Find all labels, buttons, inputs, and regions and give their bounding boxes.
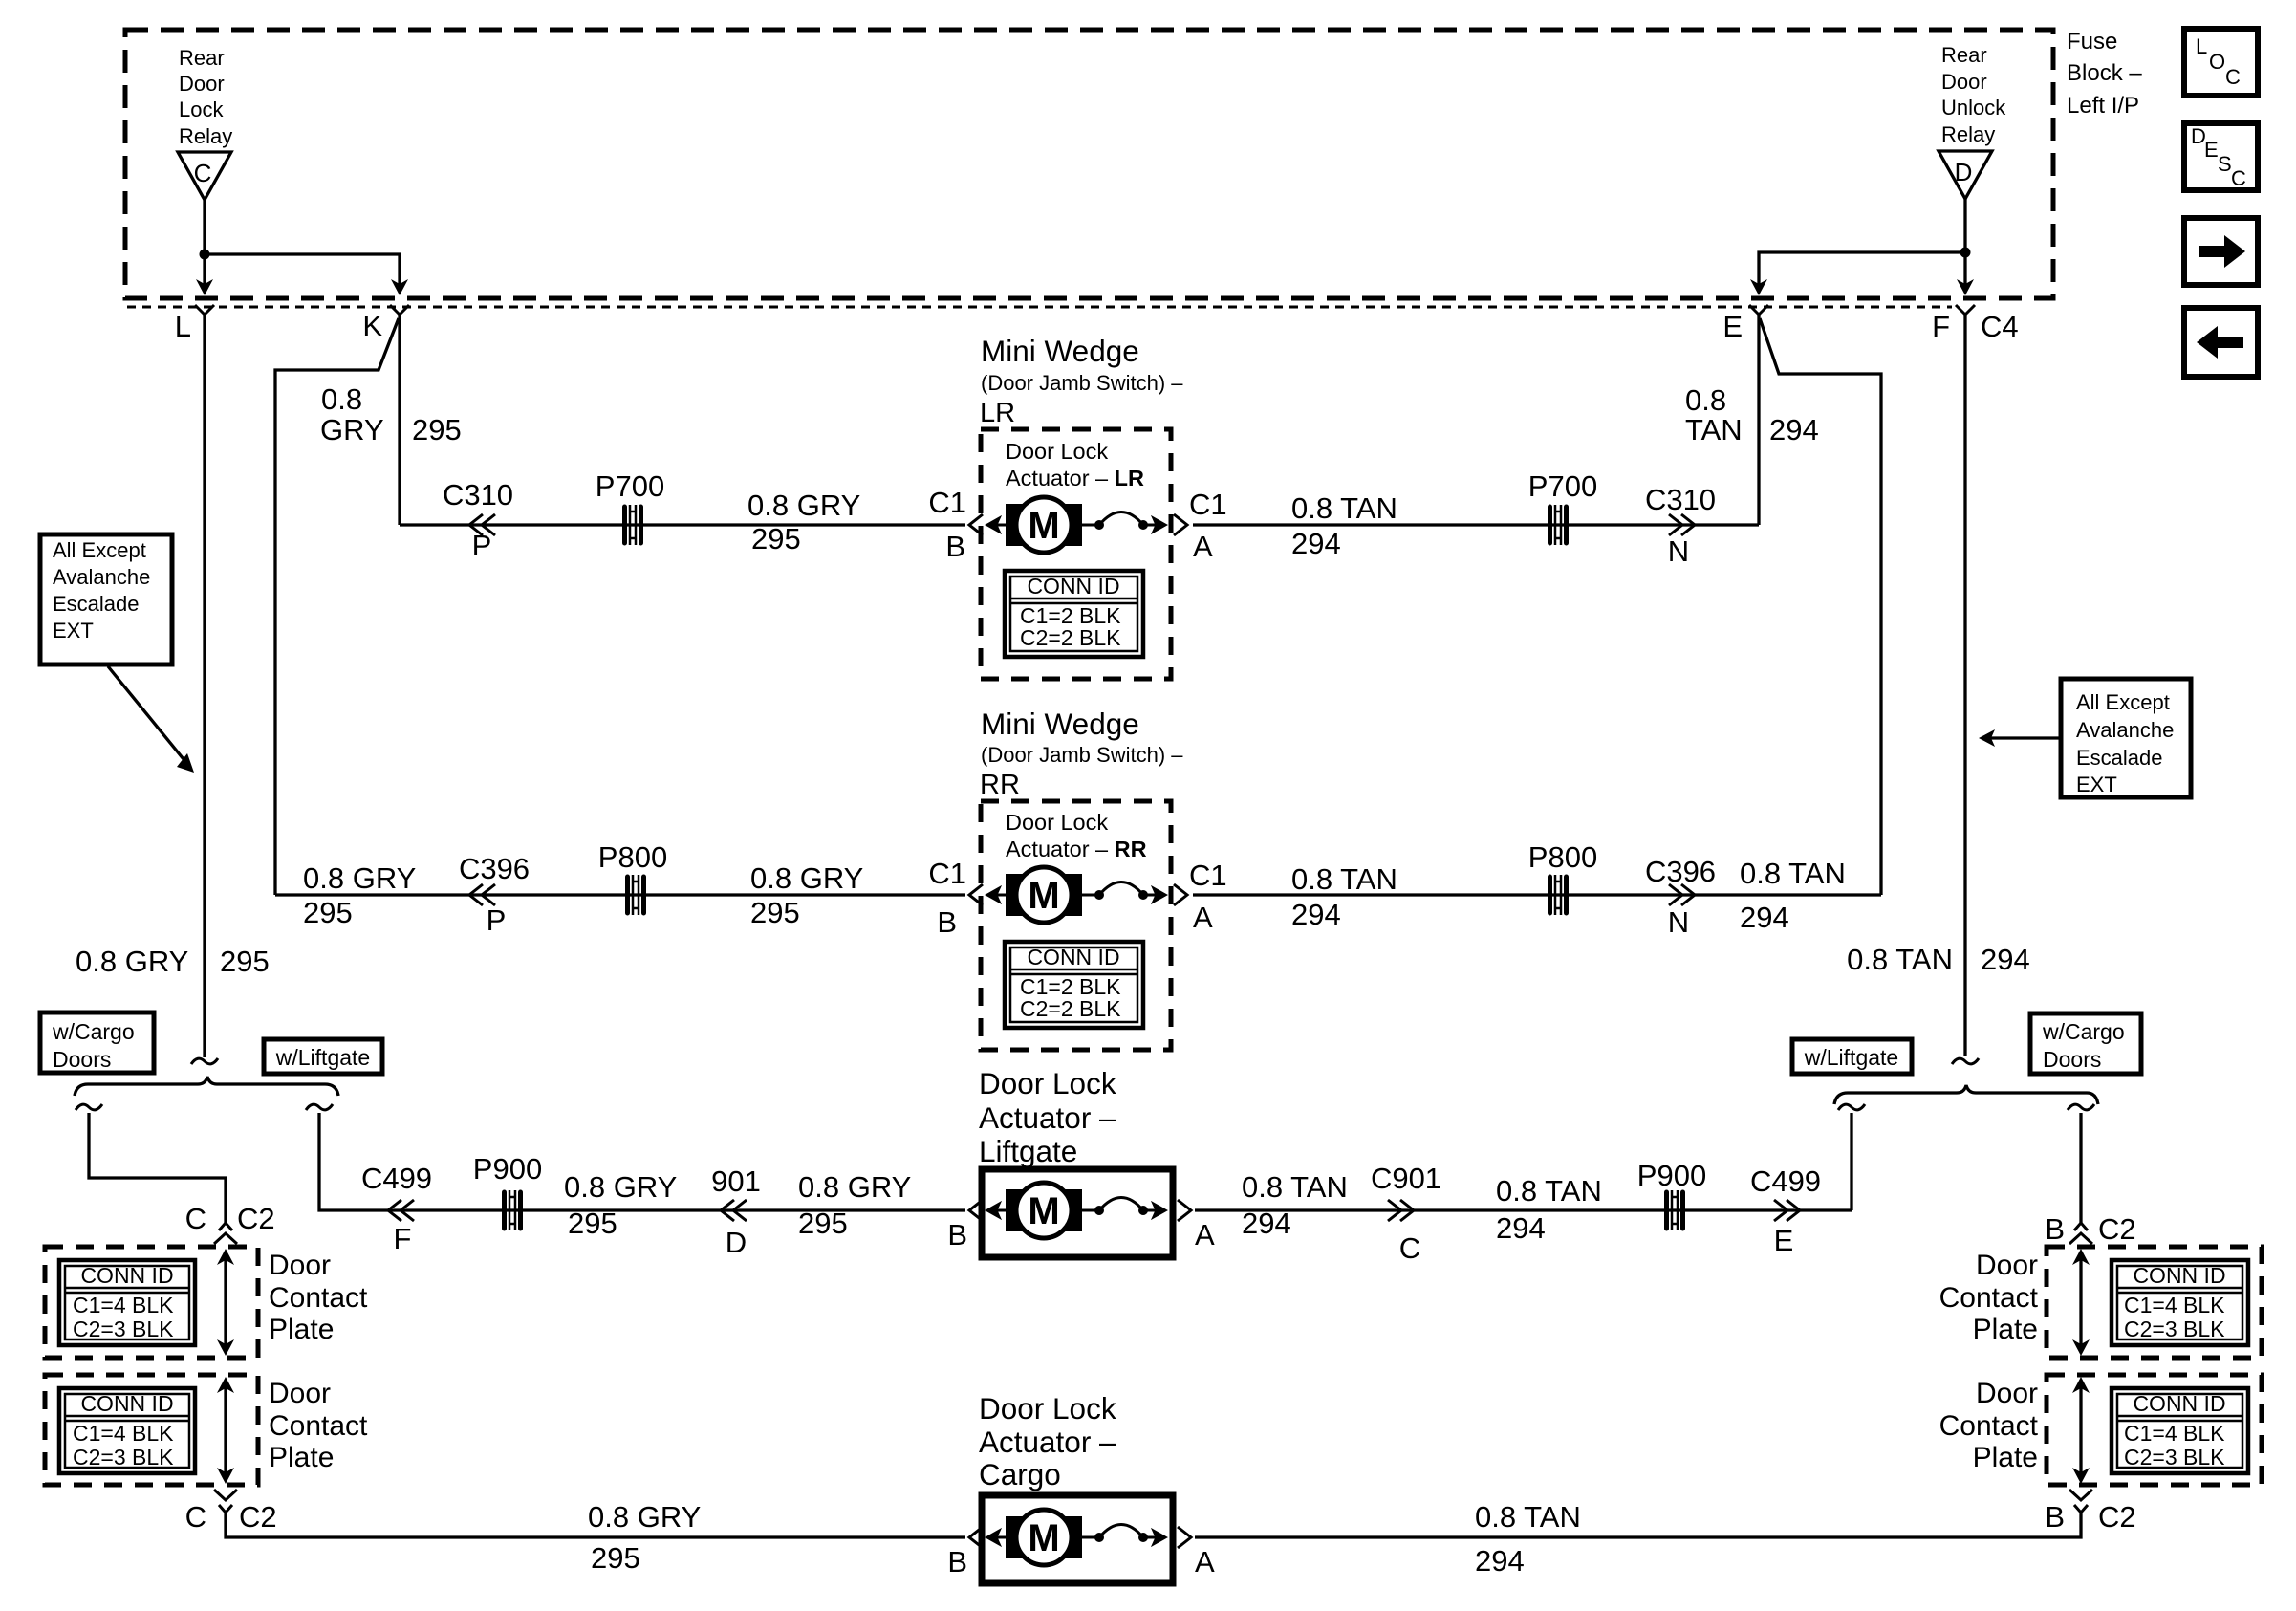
svg-text:C: C [2225, 65, 2241, 89]
svg-text:294: 294 [1242, 1207, 1291, 1240]
svg-text:C1=4 BLK: C1=4 BLK [2124, 1293, 2225, 1317]
svg-text:S: S [2218, 152, 2232, 176]
wire L vertical gray 295 [203, 315, 206, 1057]
svg-text:0.8 GRY: 0.8 GRY [76, 945, 188, 978]
svg-text:C2=3 BLK: C2=3 BLK [2124, 1317, 2225, 1341]
svg-text:Plate: Plate [269, 1442, 334, 1473]
connector B / C2 right bottom [2069, 1490, 2092, 1513]
splice P700 left [625, 505, 641, 545]
connector C396 pin P double chevron [469, 884, 483, 905]
svg-text:294: 294 [1475, 1544, 1525, 1578]
motor M of cargo actuator [986, 1510, 1167, 1565]
svg-text:Mini Wedge: Mini Wedge [981, 334, 1139, 368]
wire: relay C to junction [203, 198, 206, 285]
pin K connector [390, 305, 409, 315]
pin E connector [1749, 305, 1768, 315]
svg-text:C1=4 BLK: C1=4 BLK [2124, 1421, 2225, 1446]
connector 901 pin D double chevron [721, 1200, 734, 1221]
node end of F wire [1952, 1058, 1979, 1064]
svg-text:A: A [1193, 901, 1213, 934]
wire: liftgate actuator pin A to C499 E, tan [1195, 1208, 1852, 1211]
svg-text:E: E [1774, 1224, 1794, 1257]
wire K diagonal branch to RR row [275, 318, 399, 895]
svg-text:N: N [1668, 534, 1689, 568]
svg-text:B: B [937, 905, 957, 939]
svg-text:C2=3 BLK: C2=3 BLK [2124, 1445, 2225, 1469]
svg-text:P700: P700 [1528, 469, 1597, 503]
arrow into pin E [1750, 279, 1767, 295]
svg-text:C2: C2 [237, 1202, 275, 1235]
door lock actuator liftgate box [982, 1169, 1173, 1257]
terminal A of liftgate actuator [1178, 1200, 1191, 1221]
svg-text:EXT: EXT [2076, 773, 2117, 796]
svg-text:C: C [194, 159, 212, 187]
svg-text:P: P [472, 529, 492, 562]
svg-text:294: 294 [1740, 901, 1789, 934]
svg-text:All Except: All Except [2076, 690, 2170, 714]
svg-text:C: C [185, 1202, 206, 1235]
svg-text:294: 294 [1291, 898, 1341, 931]
node w/Liftgate branch left [306, 1104, 333, 1110]
svg-text:C1=4 BLK: C1=4 BLK [73, 1293, 174, 1317]
wire: liftgate branch right vertical [1850, 1113, 1852, 1210]
label Door Contact Plate left 2 [269, 1378, 368, 1473]
svg-text:Relay: Relay [1941, 122, 1995, 146]
note box All Except Avalanche Escalade EXT left [40, 534, 172, 664]
wire: C2 to cargo actuator pin B, gray 295 [226, 1511, 965, 1537]
svg-text:Contact: Contact [1939, 1282, 2039, 1314]
svg-text:F: F [1932, 310, 1950, 343]
relay C label: Rear Door Lock Relay [179, 46, 232, 148]
option box w/Liftgate right [1792, 1039, 1912, 1074]
svg-text:w/Cargo: w/Cargo [2042, 1019, 2125, 1044]
svg-text:Avalanche: Avalanche [53, 565, 150, 589]
wire: K to actuator LR pin B, gray 295 [400, 523, 965, 526]
svg-text:Rear: Rear [1941, 43, 1987, 67]
svg-text:0.8 GRY: 0.8 GRY [588, 1500, 701, 1534]
svg-text:CONN ID: CONN ID [80, 1391, 173, 1416]
wire: actuator LR pin A to E, tan 294 [1193, 523, 1759, 526]
door contact plate dashed box right 2 [2047, 1375, 2262, 1485]
svg-text:(Door Jamb Switch) –: (Door Jamb Switch) – [981, 743, 1183, 767]
connector C310 pin N double chevron [1669, 514, 1682, 535]
svg-text:0.8 TAN: 0.8 TAN [1242, 1170, 1348, 1204]
svg-text:0.8 TAN: 0.8 TAN [1475, 1500, 1581, 1534]
double arrow through door contact plate left 1 [217, 1249, 234, 1356]
svg-text:0.8 GRY: 0.8 GRY [750, 861, 863, 895]
button DESC [2184, 123, 2258, 190]
pin L connector [195, 305, 214, 315]
svg-text:Doors: Doors [53, 1047, 111, 1072]
svg-text:C1: C1 [1189, 859, 1227, 892]
svg-text:Door Lock: Door Lock [1006, 810, 1108, 835]
svg-text:0.8 TAN: 0.8 TAN [1740, 857, 1846, 890]
svg-text:295: 295 [568, 1207, 617, 1240]
wire: cargo branch down right [2079, 1113, 2082, 1223]
label Fuse Block - Left I/P [2067, 29, 2142, 119]
svg-text:L: L [175, 310, 191, 343]
wire: C2 right to cargo actuator pin A, tan 294 [1195, 1511, 2081, 1537]
arrow into pin K [391, 279, 408, 295]
arrow from left note box [108, 666, 187, 764]
svg-text:P800: P800 [598, 840, 667, 874]
pin F connector [1956, 305, 1975, 315]
svg-text:E: E [1722, 310, 1743, 343]
option box w/Liftgate left [264, 1039, 382, 1074]
button LOC [2184, 29, 2258, 96]
wire: cargo branch down to connector C2, left [89, 1113, 226, 1223]
svg-text:Actuator – RR: Actuator – RR [1006, 837, 1147, 861]
svg-text:Lock: Lock [179, 98, 224, 121]
wire E diagonal branch to RR row right [1760, 318, 1881, 895]
CONN ID table right 2 [2112, 1388, 2248, 1473]
label Door Lock Actuator - LR [1006, 439, 1144, 490]
connector C396 pin N double chevron [1669, 884, 1682, 905]
svg-text:O: O [2209, 50, 2225, 74]
svg-text:C310: C310 [443, 478, 513, 512]
relay D label: Rear Door Unlock Relay [1941, 43, 2006, 146]
connector C901 pin C double chevron [1388, 1200, 1401, 1221]
svg-text:w/Liftgate: w/Liftgate [1804, 1045, 1898, 1070]
fuse block Fuse Block - Left I/P dashed enclosure [125, 30, 2053, 298]
svg-text:K: K [362, 309, 382, 342]
svg-text:Plate: Plate [1973, 1442, 2038, 1473]
wire: relay D to junction [1963, 197, 1966, 285]
label Door Lock Actuator - RR [1006, 810, 1147, 861]
svg-text:C396: C396 [1645, 855, 1716, 888]
svg-text:w/Liftgate: w/Liftgate [275, 1045, 370, 1070]
svg-text:C1=4 BLK: C1=4 BLK [73, 1421, 174, 1446]
svg-text:C2: C2 [239, 1500, 277, 1534]
svg-text:Door: Door [1976, 1250, 2038, 1281]
double arrow through door contact plate right 2 [2072, 1377, 2090, 1484]
wire: junction to K branch [205, 254, 400, 285]
svg-text:Block –: Block – [2067, 60, 2142, 86]
splice P900 right [1667, 1190, 1683, 1230]
motor M of actuator LR [986, 497, 1167, 553]
svg-text:Door: Door [179, 72, 225, 96]
svg-text:Doors: Doors [2043, 1047, 2101, 1072]
svg-text:Relay: Relay [179, 124, 232, 148]
svg-text:Actuator –: Actuator – [979, 1100, 1116, 1135]
svg-text:C2: C2 [2098, 1212, 2136, 1246]
svg-text:P900: P900 [1637, 1159, 1706, 1192]
svg-text:Escalade: Escalade [2076, 746, 2163, 770]
svg-text:CONN ID: CONN ID [1027, 574, 1119, 599]
terminal B of cargo actuator [969, 1527, 983, 1548]
svg-text:CONN ID: CONN ID [1027, 945, 1119, 969]
connector C4 dashed line [127, 306, 1952, 309]
svg-text:RR: RR [980, 770, 1020, 800]
motor M of actuator RR [986, 867, 1167, 923]
svg-text:P700: P700 [596, 469, 664, 503]
svg-text:0.8 GRY: 0.8 GRY [564, 1170, 677, 1204]
svg-text:295: 295 [591, 1541, 640, 1575]
CONN ID table of actuator RR [1005, 942, 1143, 1028]
svg-text:Plate: Plate [269, 1314, 334, 1345]
svg-text:C2=2 BLK: C2=2 BLK [1020, 996, 1121, 1021]
svg-text:C2=3 BLK: C2=3 BLK [73, 1317, 174, 1341]
door lock actuator RR dashed box [981, 801, 1171, 1050]
svg-text:A: A [1193, 530, 1213, 563]
svg-text:C396: C396 [459, 852, 530, 885]
label Mini Wedge (Door Jamb Switch) - LR [980, 334, 1183, 428]
button back arrow [2184, 308, 2258, 377]
label Mini Wedge (Door Jamb Switch) - RR [980, 707, 1183, 800]
CONN ID table left 2 [59, 1388, 195, 1473]
svg-text:294: 294 [1496, 1211, 1546, 1245]
svg-text:Contact: Contact [269, 1410, 368, 1442]
svg-text:C2=2 BLK: C2=2 BLK [1020, 625, 1121, 650]
node w/Cargo branch right [2068, 1104, 2094, 1110]
arrow into pin F [1957, 279, 1974, 295]
svg-text:C310: C310 [1645, 483, 1716, 516]
svg-text:(Door Jamb Switch) –: (Door Jamb Switch) – [981, 371, 1183, 395]
splice P900 left [505, 1190, 521, 1230]
brace splitting F wire right [1834, 1085, 2098, 1104]
svg-text:Unlock: Unlock [1941, 96, 2006, 120]
svg-text:295: 295 [750, 896, 800, 929]
connector C310 pin P double chevron [469, 514, 483, 535]
double arrow through door contact plate left 2 [217, 1377, 234, 1484]
node w/Liftgate branch right [1838, 1104, 1865, 1110]
svg-text:294: 294 [1291, 527, 1341, 560]
wire: K branch to actuator RR pin B, gray 295 [275, 893, 965, 896]
svg-text:295: 295 [220, 945, 270, 978]
svg-text:B: B [947, 1545, 967, 1578]
brace splitting L wire left [75, 1077, 338, 1096]
CONN ID table right 1 [2112, 1260, 2248, 1345]
svg-text:Door: Door [1976, 1378, 2038, 1409]
label Door Contact Plate right 1 [1939, 1250, 2039, 1345]
label Door Contact Plate left 1 [269, 1250, 368, 1345]
svg-text:0.8: 0.8 [1685, 383, 1726, 417]
svg-text:0.8 TAN: 0.8 TAN [1291, 862, 1397, 896]
connector C / C2 left bottom [214, 1490, 237, 1513]
arrow into pin L [196, 279, 213, 295]
terminal A of cargo actuator [1178, 1527, 1191, 1548]
junction dot on relay D wire [1960, 248, 1971, 258]
svg-text:295: 295 [412, 413, 462, 446]
svg-text:Door: Door [269, 1378, 331, 1409]
terminal B of liftgate actuator [969, 1200, 983, 1221]
svg-text:C1: C1 [928, 486, 966, 519]
svg-text:C: C [2231, 166, 2246, 190]
note box All Except Avalanche Escalade EXT right [2061, 679, 2191, 797]
svg-text:Door Lock: Door Lock [979, 1391, 1116, 1426]
node end of L wire [191, 1058, 218, 1064]
svg-text:B: B [945, 530, 965, 563]
svg-text:0.8: 0.8 [321, 382, 362, 416]
relay C triangle symbol [178, 152, 231, 200]
svg-text:C499: C499 [361, 1162, 432, 1195]
motor M of liftgate actuator [986, 1183, 1167, 1238]
svg-text:B: B [2045, 1500, 2065, 1534]
svg-text:CONN ID: CONN ID [2133, 1391, 2225, 1416]
wire: junction to E branch [1759, 252, 1965, 285]
svg-text:0.8 GRY: 0.8 GRY [303, 861, 416, 895]
connector C499 pin F double chevron [388, 1200, 401, 1221]
svg-text:Liftgate: Liftgate [979, 1134, 1077, 1168]
svg-text:C901: C901 [1371, 1162, 1441, 1195]
svg-text:Actuator – LR: Actuator – LR [1006, 466, 1144, 490]
door contact plate dashed box right 1 [2047, 1247, 2262, 1358]
svg-text:Door: Door [1941, 70, 1987, 94]
svg-text:Escalade: Escalade [53, 592, 140, 616]
svg-text:GRY: GRY [320, 413, 384, 446]
label Door Lock Actuator - Cargo [979, 1391, 1116, 1491]
svg-text:0.8 GRY: 0.8 GRY [747, 489, 860, 522]
label Door Contact Plate right 2 [1939, 1378, 2039, 1473]
svg-text:295: 295 [303, 896, 353, 929]
svg-text:C2: C2 [2098, 1500, 2136, 1534]
svg-text:All Except: All Except [53, 538, 146, 562]
double arrow through door contact plate right 1 [2072, 1249, 2090, 1356]
splice P700 right [1550, 505, 1567, 545]
arrow from right note box [1990, 736, 2061, 739]
svg-text:Door Lock: Door Lock [979, 1066, 1116, 1100]
svg-text:C1: C1 [928, 857, 966, 890]
svg-text:295: 295 [798, 1207, 848, 1240]
wire F vertical tan 294 [1963, 315, 1966, 1056]
svg-text:D: D [1955, 158, 1973, 186]
svg-text:EXT: EXT [53, 619, 94, 642]
svg-text:0.8 TAN: 0.8 TAN [1291, 491, 1397, 525]
svg-text:LR: LR [980, 398, 1015, 428]
wire E vertical to LR row right [1757, 315, 1760, 525]
option box w/Cargo Doors right [2030, 1013, 2141, 1074]
door contact plate dashed box left 1 [45, 1247, 258, 1358]
svg-text:N: N [1668, 905, 1689, 939]
svg-text:295: 295 [751, 522, 801, 555]
svg-text:294: 294 [1769, 413, 1819, 446]
svg-text:P900: P900 [473, 1152, 542, 1186]
svg-text:w/Cargo: w/Cargo [52, 1019, 135, 1044]
svg-text:B: B [947, 1218, 967, 1252]
svg-text:Fuse: Fuse [2067, 29, 2117, 54]
connector B / C2 right top [2069, 1223, 2092, 1244]
svg-text:B: B [2045, 1212, 2065, 1246]
svg-text:C1: C1 [1189, 488, 1227, 521]
svg-text:L: L [2196, 34, 2207, 58]
relay D triangle symbol [1939, 151, 1992, 199]
button next arrow [2184, 218, 2258, 285]
svg-text:Cargo: Cargo [979, 1457, 1061, 1491]
wire K vertical to LR row [398, 315, 401, 525]
splice P800 left [628, 875, 644, 915]
svg-text:Plate: Plate [1973, 1314, 2038, 1345]
label Door Lock Actuator - Liftgate [979, 1066, 1116, 1168]
svg-text:Left I/P: Left I/P [2067, 93, 2139, 119]
svg-text:C2=3 BLK: C2=3 BLK [73, 1445, 174, 1469]
svg-text:Mini Wedge: Mini Wedge [981, 707, 1139, 741]
connector C / C2 left top [214, 1223, 237, 1244]
svg-text:294: 294 [1981, 943, 2030, 976]
svg-text:P800: P800 [1528, 840, 1597, 874]
svg-text:0.8 TAN: 0.8 TAN [1496, 1174, 1602, 1208]
svg-text:Actuator –: Actuator – [979, 1425, 1116, 1459]
door lock actuator LR dashed box [981, 429, 1171, 679]
svg-text:E: E [2204, 138, 2219, 162]
svg-text:Avalanche: Avalanche [2076, 718, 2174, 742]
option box w/Cargo Doors left [40, 1012, 154, 1073]
svg-text:P: P [487, 903, 507, 937]
wire: actuator RR pin A to E branch, tan 294 [1193, 893, 1881, 896]
svg-text:CONN ID: CONN ID [80, 1263, 173, 1288]
svg-text:C: C [185, 1500, 206, 1534]
CONN ID table left 1 [59, 1260, 195, 1345]
svg-text:C4: C4 [1981, 310, 2019, 343]
wire: liftgate branch to actuator pin B, gray [319, 1113, 965, 1210]
svg-text:0.8 TAN: 0.8 TAN [1847, 943, 1953, 976]
svg-text:C499: C499 [1750, 1165, 1821, 1198]
svg-text:0.8 GRY: 0.8 GRY [798, 1170, 911, 1204]
svg-text:TAN: TAN [1685, 413, 1743, 446]
CONN ID table of actuator LR [1005, 571, 1143, 657]
svg-text:Door: Door [269, 1250, 331, 1281]
svg-text:901: 901 [711, 1165, 761, 1198]
svg-text:C: C [1399, 1231, 1420, 1265]
door lock actuator cargo box [982, 1495, 1173, 1583]
connector C499 pin E double chevron [1774, 1200, 1787, 1221]
junction dot on relay C wire [200, 250, 210, 260]
svg-text:Contact: Contact [1939, 1410, 2039, 1442]
svg-text:A: A [1195, 1545, 1215, 1578]
svg-text:D: D [726, 1226, 747, 1259]
svg-text:CONN ID: CONN ID [2133, 1263, 2225, 1288]
splice P800 right [1550, 875, 1567, 915]
svg-text:F: F [394, 1222, 412, 1255]
svg-text:Rear: Rear [179, 46, 225, 70]
svg-text:Door Lock: Door Lock [1006, 439, 1108, 464]
door contact plate dashed box left 2 [45, 1375, 258, 1485]
svg-text:A: A [1195, 1218, 1215, 1252]
svg-text:Contact: Contact [269, 1282, 368, 1314]
node w/Cargo branch left [76, 1104, 102, 1110]
